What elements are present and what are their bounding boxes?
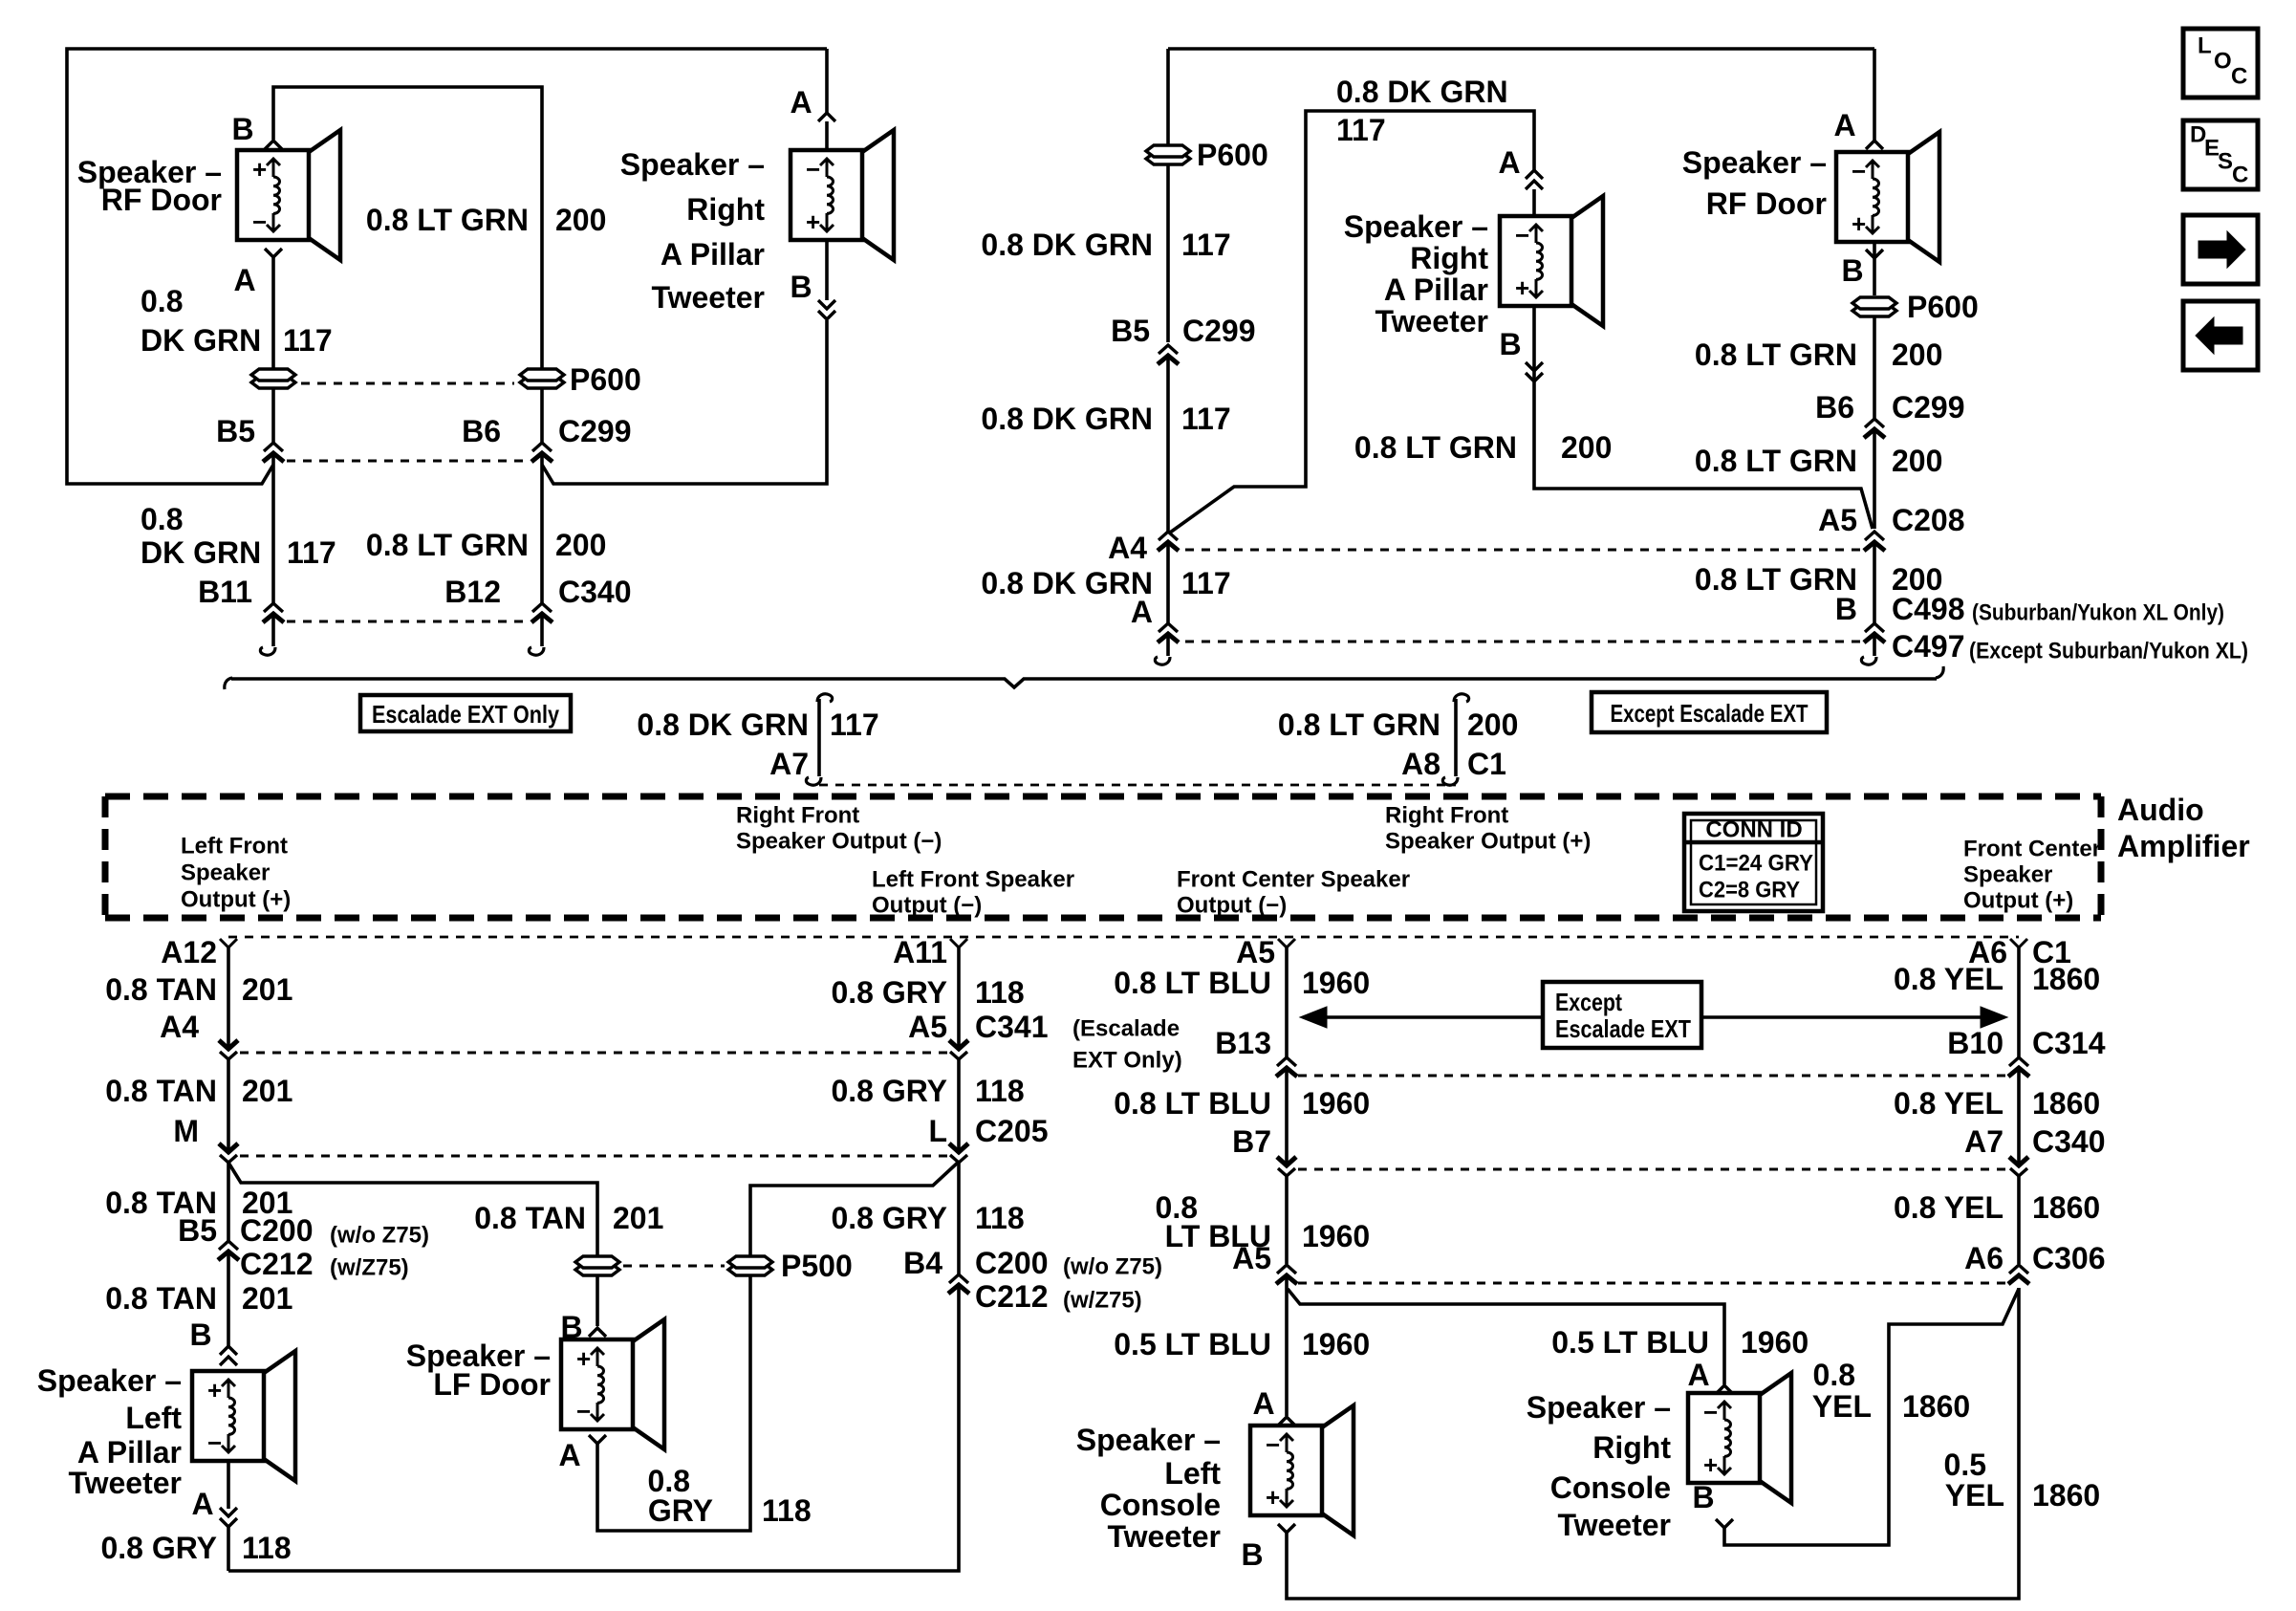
label 0.8 TAN 201 (row 3): [105, 1186, 292, 1220]
svg-text:B12: B12: [444, 575, 501, 609]
svg-text:B: B: [189, 1317, 211, 1352]
svg-text:−: −: [1266, 1430, 1280, 1459]
wire: B5 to A4 (top-right): [1166, 356, 1170, 532]
svg-text:B: B: [1841, 253, 1863, 288]
svg-text:A: A: [233, 263, 255, 297]
svg-text:Speaker Output (+): Speaker Output (+): [1385, 829, 1591, 855]
connector C314 pin B13: [1215, 1026, 1297, 1077]
label 0.8 GRY 118 (B4 row): [831, 1201, 1024, 1235]
box Except Escalade EXT (middle): [1543, 982, 1701, 1048]
svg-text:0.8 LT GRN: 0.8 LT GRN: [1278, 708, 1440, 742]
wire stub below B with hook (top-right right wire): [1861, 634, 1876, 664]
svg-text:Speaker –: Speaker –: [1682, 145, 1827, 180]
svg-text:0.8 GRY: 0.8 GRY: [100, 1531, 217, 1565]
svg-text:B: B: [1835, 592, 1857, 626]
svg-text:Output (+): Output (+): [1963, 888, 2073, 914]
speaker Speaker - LF Door: [561, 1319, 664, 1449]
connector C497 label: [1892, 629, 1965, 664]
svg-text:P600: P600: [570, 362, 641, 397]
svg-text:0.8 LT GRN: 0.8 LT GRN: [366, 528, 529, 562]
label Front Center Speaker Output (+): [1963, 837, 2101, 914]
label 0.8 TAN 201 (row 1): [105, 972, 292, 1007]
wire: amplifier lead A7 (0.8 DK GRN 117): [806, 694, 832, 785]
wire: A4 down to connector A (DK GRN 117): [1166, 542, 1170, 623]
svg-text:A Pillar: A Pillar: [77, 1435, 182, 1469]
svg-text:Escalade EXT Only: Escalade EXT Only: [372, 700, 559, 729]
svg-text:C: C: [2232, 163, 2248, 188]
connector P500 left half: [575, 1256, 619, 1275]
svg-text:B7: B7: [1232, 1124, 1271, 1159]
svg-text:117: 117: [1336, 113, 1386, 147]
svg-text:0.8 LT GRN: 0.8 LT GRN: [1695, 337, 1857, 372]
label Right Front Speaker Output (-): [736, 803, 942, 855]
connector P600 (top-right right wire): [1852, 290, 1979, 324]
svg-text:117: 117: [830, 708, 879, 742]
connector C299 pin B6 (top-right): [1815, 390, 1964, 438]
svg-text:117: 117: [283, 323, 333, 358]
connector C497 pin A: [1131, 595, 1179, 642]
svg-text:200: 200: [1892, 444, 1942, 478]
wire: chevrons to tweeter box (top-right): [1532, 189, 1536, 216]
svg-text:Console: Console: [1550, 1470, 1671, 1505]
svg-text:B5: B5: [1111, 314, 1150, 348]
svg-text:YEL: YEL: [1812, 1389, 1872, 1424]
svg-text:A: A: [1833, 108, 1855, 142]
label 0.8 LT BLU 1960 (row 2): [1114, 1086, 1370, 1121]
label (Except Suburban/Yukon XL): [1969, 639, 2248, 664]
svg-text:L: L: [928, 1114, 947, 1148]
svg-text:Right Front: Right Front: [736, 803, 859, 829]
svg-text:−: −: [252, 207, 267, 236]
label Speaker - RF Door (top-right): [1682, 145, 1827, 221]
svg-text:C1=24 GRY: C1=24 GRY: [1699, 851, 1813, 877]
svg-text:A4: A4: [1108, 531, 1147, 565]
connector C340 pin B11: [198, 575, 284, 622]
label Speaker - Right A Pillar Tweeter (top-left section): [620, 147, 766, 315]
label Speaker - RF Door (top-left): [77, 155, 222, 217]
svg-text:+: +: [1515, 273, 1529, 302]
label 0.8 DK GRN 117 (top-left upper): [141, 284, 333, 358]
svg-text:(Suburban/Yukon XL Only): (Suburban/Yukon XL Only): [1972, 600, 2224, 626]
svg-text:+: +: [806, 207, 820, 236]
wire: tweeter B to chevrons (top-left): [825, 240, 829, 300]
svg-text:Speaker Output (−): Speaker Output (−): [736, 829, 942, 855]
wire stub below B12 with hook: [529, 614, 544, 655]
pin B RF Door (top-right): [1841, 250, 1883, 288]
svg-text:118: 118: [975, 1201, 1025, 1235]
speaker Speaker - RF Door (top-left): [237, 130, 340, 260]
svg-text:Except: Except: [1555, 988, 1622, 1016]
wire: dashed connector row between A7 and A8: [819, 784, 1456, 787]
svg-text:201: 201: [242, 1074, 292, 1108]
connector C208 pin A4: [1108, 531, 1179, 565]
svg-text:C200: C200: [975, 1246, 1049, 1280]
svg-text:117: 117: [1181, 228, 1231, 262]
wire: left wire down to P600 (top-right): [1166, 49, 1170, 144]
connector C205 pin L: [928, 1114, 1048, 1163]
wire: B6 to B12 (LT GRN 200): [540, 453, 544, 604]
label 0.8 LT GRN 200 (tweeter B run, top-right): [1354, 430, 1612, 465]
wire: inner horizontal 0.8 LT GRN 200 top run: [273, 87, 542, 368]
wire: top edge down to tweeter A (top-left): [825, 49, 829, 113]
svg-text:0.8 LT GRN: 0.8 LT GRN: [1695, 444, 1857, 478]
svg-text:(Except Suburban/Yukon XL): (Except Suburban/Yukon XL): [1969, 639, 2248, 664]
connector C341 pin A4 (bottom-left): [160, 1010, 238, 1059]
svg-text:0.8 TAN: 0.8 TAN: [105, 1074, 217, 1108]
svg-text:0.8 YEL: 0.8 YEL: [1894, 962, 2004, 996]
wire: dashed pairing line C299 (top-left): [287, 460, 529, 463]
connector P600 (top-right left wire): [1146, 138, 1268, 172]
svg-text:117: 117: [287, 535, 336, 570]
marker double arrow Except Escalade EXT: [1300, 1007, 2007, 1028]
svg-text:0.8 DK GRN: 0.8 DK GRN: [1336, 75, 1508, 109]
svg-text:Front Center: Front Center: [1963, 837, 2101, 862]
label 0.8 LT GRN 200 (top-left): [366, 203, 606, 237]
box Escalade EXT Only: [360, 695, 571, 731]
speaker Speaker - Right A Pillar Tweeter (top-right section): [1500, 196, 1603, 326]
svg-text:C299: C299: [558, 414, 632, 448]
wire: RF Door B to P600 (top-right): [1873, 242, 1876, 295]
svg-text:0.8 LT GRN: 0.8 LT GRN: [1695, 562, 1857, 597]
svg-text:C: C: [2231, 64, 2247, 90]
pin A Speaker LF Door: [558, 1435, 606, 1472]
svg-text:Speaker: Speaker: [181, 860, 270, 886]
speaker Speaker - Right Console Tweeter: [1688, 1373, 1791, 1503]
svg-text:118: 118: [975, 975, 1025, 1010]
pin A RF Door (top-right): [1833, 108, 1883, 149]
wire: bottom run from tweeter A to A11 chain: [228, 1285, 959, 1571]
svg-text:Output (−): Output (−): [1177, 893, 1287, 919]
label 0.8 DK GRN 117 (top-left lower): [141, 502, 336, 570]
svg-text:A Pillar: A Pillar: [661, 237, 765, 272]
svg-text:Left: Left: [125, 1401, 182, 1435]
pin A RF Door (top-left): [233, 249, 282, 297]
svg-text:117: 117: [1181, 402, 1231, 436]
component Audio Amplifier (bold dashed box): [105, 796, 2101, 918]
wire: dashed pairing line C314: [1298, 1075, 2005, 1078]
pin B tweeter (top-right): [1499, 327, 1543, 381]
label 0.5 LT BLU 1960 (branch): [1551, 1325, 1809, 1360]
connector C299 pin B6 (top-left): [462, 414, 631, 462]
svg-text:0.8 DK GRN: 0.8 DK GRN: [637, 708, 809, 742]
wire: dashed pairing line C340 (bottom): [1298, 1168, 2005, 1171]
pin B Right A Pillar Tweeter (top-left): [790, 270, 835, 319]
wire: amplifier bottom pin dashed row: [228, 936, 2019, 939]
svg-text:118: 118: [762, 1493, 812, 1528]
svg-text:Tweeter: Tweeter: [1107, 1519, 1221, 1554]
svg-text:Speaker: Speaker: [1963, 862, 2052, 888]
wire: P500 down to LF Door B: [596, 1276, 599, 1326]
svg-text:P600: P600: [1197, 138, 1268, 172]
label 0.8 LT BLU 1960 (row 1): [1114, 966, 1370, 1000]
label 0.8 LT GRN 200 (top-left lower): [366, 528, 606, 562]
speaker Speaker - Left Console Tweeter: [1250, 1405, 1354, 1535]
svg-text:P600: P600: [1907, 290, 1979, 324]
wire: dashed pairing line C306: [1298, 1282, 2005, 1285]
svg-text:−: −: [576, 1397, 591, 1426]
svg-text:200: 200: [1561, 430, 1612, 465]
svg-text:O: O: [2214, 49, 2232, 75]
label 0.8 YEL 1860 (row 2): [1894, 1086, 2100, 1121]
svg-text:EXT Only): EXT Only): [1072, 1048, 1182, 1074]
wire: dashed pairing line P600 (top-left): [301, 382, 514, 385]
box Except Escalade EXT (top): [1592, 692, 1827, 732]
icon LOC box: [2183, 29, 2258, 98]
wire: Right Console Tweeter B loop to A6 junction (0.8 YEL 1860): [1724, 1289, 2019, 1545]
svg-text:+: +: [576, 1344, 591, 1373]
wire: B10 down to A7 C340 (0.8 YEL 1860): [2017, 1068, 2021, 1165]
svg-text:Right: Right: [1592, 1430, 1671, 1465]
icon back arrow box: [2183, 301, 2258, 370]
label P600 (top-left): [570, 362, 641, 397]
svg-text:Speaker –: Speaker –: [1076, 1423, 1221, 1457]
pin B Speaker LF Door: [560, 1310, 606, 1344]
wire stub below A with hook (top-right left wire): [1155, 634, 1170, 664]
svg-text:(w/o Z75): (w/o Z75): [1063, 1254, 1162, 1280]
svg-text:Right: Right: [686, 192, 765, 227]
svg-text:Except Escalade EXT: Except Escalade EXT: [1611, 699, 1809, 728]
svg-text:+: +: [1266, 1483, 1280, 1512]
label 0.8 GRY 118 (A11 row 1): [831, 975, 1024, 1010]
svg-text:C314: C314: [2032, 1026, 2106, 1060]
wire: top-right section top edge: [1168, 47, 1874, 51]
svg-text:A11: A11: [893, 935, 947, 969]
label 0.8 DK GRN 117 (top-right inner loop): [1336, 75, 1508, 147]
svg-text:B: B: [790, 270, 812, 304]
label 0.8 GRY 118 (A11 row 2): [831, 1074, 1024, 1108]
svg-text:RF Door: RF Door: [1706, 186, 1827, 221]
svg-text:1860: 1860: [2032, 962, 2100, 996]
wire: B5 to B11 (DK GRN 117): [271, 453, 275, 604]
connector C341 pin A5 (bottom): [908, 1010, 1048, 1059]
svg-text:A: A: [1687, 1358, 1709, 1392]
label Speaker - Left Console Tweeter: [1076, 1423, 1222, 1554]
wire: A11 down to A5 C341 (0.8 GRY 118): [957, 947, 961, 1048]
wire: M branch to LF Door B via P500 (0.8 TAN 201): [228, 1163, 597, 1255]
speaker Speaker - RF Door (top-right): [1836, 132, 1939, 262]
wire: P600 to B6 (top-left): [540, 389, 544, 443]
svg-text:LF Door: LF Door: [433, 1367, 551, 1402]
label 0.5 YEL 1860 (bottom right): [1944, 1448, 2101, 1513]
wire: L down to B4 chevrons: [957, 1163, 961, 1275]
svg-text:0.8 DK GRN: 0.8 DK GRN: [981, 402, 1153, 436]
connector C306 pin A5 (bottom): [1232, 1241, 1297, 1284]
wire: B7 down to A5 C306: [1285, 1176, 1289, 1264]
svg-text:Speaker –: Speaker –: [620, 147, 765, 182]
svg-text:0.8 LT BLU: 0.8 LT BLU: [1114, 1086, 1271, 1121]
svg-text:0.8 TAN: 0.8 TAN: [105, 1281, 217, 1316]
svg-text:Right Front: Right Front: [1385, 803, 1508, 829]
svg-text:A5: A5: [1236, 935, 1275, 969]
svg-text:L: L: [2198, 33, 2212, 59]
svg-text:Right: Right: [1410, 241, 1488, 275]
svg-text:0.5: 0.5: [1944, 1448, 1986, 1482]
svg-text:A: A: [790, 85, 812, 120]
svg-text:0.8 TAN: 0.8 TAN: [474, 1201, 586, 1235]
label Speaker - Right Console Tweeter: [1527, 1390, 1672, 1542]
pin A Left Console Tweeter: [1252, 1386, 1295, 1426]
svg-text:Tweeter: Tweeter: [68, 1466, 182, 1500]
wire: Left Console Tweeter B bottom run to A6 (0.5 YEL 1860): [1287, 1288, 2019, 1599]
svg-text:GRY: GRY: [648, 1493, 713, 1528]
wire: A6 pin down to B10 (0.8 YEL 1860): [2017, 947, 2021, 1057]
svg-text:−: −: [1852, 157, 1866, 185]
connector C340 pin B12: [444, 575, 631, 622]
svg-text:A5: A5: [1818, 503, 1857, 537]
label 0.8 YEL 1860 (row 1): [1894, 962, 2100, 996]
wire: tweeter B down and right to A5 (LT GRN 200): [1534, 306, 1873, 529]
label Speaker - Right A Pillar Tweeter (top-right section): [1344, 209, 1489, 338]
wire: A5 down to L: [957, 1059, 961, 1151]
connector C306 pin A6 (bottom): [1964, 1241, 2105, 1284]
label 0.8 LT GRN 200 (top-right, above B6): [1695, 337, 1942, 372]
svg-text:200: 200: [1892, 337, 1942, 372]
svg-text:S: S: [2218, 149, 2233, 175]
svg-text:(w/Z75): (w/Z75): [1063, 1288, 1142, 1314]
label 0.8 LT BLU 1960 (row 3): [1156, 1190, 1371, 1253]
connector C200/C212 pin B5 (bottom-left): [178, 1213, 429, 1281]
pin B RF Door (top-left): [231, 112, 282, 149]
label Speaker - LF Door: [406, 1339, 551, 1402]
svg-text:0.5 LT BLU: 0.5 LT BLU: [1551, 1325, 1709, 1360]
svg-text:Tweeter: Tweeter: [651, 280, 765, 315]
svg-text:−: −: [207, 1428, 222, 1457]
svg-text:C498: C498: [1892, 592, 1965, 626]
svg-text:Tweeter: Tweeter: [1557, 1508, 1671, 1542]
svg-text:0.8 DK GRN: 0.8 DK GRN: [981, 228, 1153, 262]
svg-text:−: −: [1703, 1398, 1718, 1426]
svg-text:200: 200: [555, 203, 606, 237]
svg-text:A: A: [558, 1438, 580, 1472]
label Right Front Speaker Output (+): [1385, 803, 1591, 855]
connector C205 pin M: [173, 1114, 238, 1163]
box CONN ID table: [1684, 814, 1823, 911]
label 0.8 LT GRN 200 (top-right row3): [1695, 562, 1942, 597]
svg-text:B5: B5: [178, 1213, 217, 1248]
svg-text:201: 201: [242, 1281, 292, 1316]
svg-text:Left Front: Left Front: [181, 834, 288, 860]
svg-text:B11: B11: [198, 575, 252, 609]
label 0.8 DK GRN 117 (top-right row1): [981, 228, 1230, 262]
wire: B5 chevrons down to tweeter B: [227, 1252, 230, 1346]
svg-text:117: 117: [1181, 566, 1231, 600]
label 0.8 LT GRN 200 A8 C1: [1278, 708, 1518, 781]
svg-text:B6: B6: [462, 414, 501, 448]
svg-text:1960: 1960: [1302, 1219, 1370, 1253]
wire: top-left section outer loop (tweeter circuit, top and left edges): [67, 49, 827, 484]
svg-text:Amplifier: Amplifier: [2117, 829, 2250, 863]
label 0.8 YEL 1860 (row 3): [1894, 1190, 2100, 1225]
svg-text:B10: B10: [1947, 1026, 2004, 1060]
svg-text:A8: A8: [1401, 747, 1440, 781]
svg-text:Front Center Speaker: Front Center Speaker: [1177, 867, 1410, 893]
svg-text:A5: A5: [908, 1010, 947, 1044]
svg-text:Speaker –: Speaker –: [1344, 209, 1488, 244]
svg-text:0.8 TAN: 0.8 TAN: [105, 972, 217, 1007]
svg-text:−: −: [806, 155, 820, 184]
svg-text:B: B: [1692, 1480, 1714, 1514]
svg-text:1860: 1860: [2032, 1190, 2100, 1225]
svg-text:+: +: [252, 155, 267, 184]
label Speaker - Left A Pillar Tweeter: [37, 1363, 183, 1500]
pin A tweeter (top-right): [1498, 145, 1543, 189]
svg-text:C205: C205: [975, 1114, 1049, 1148]
svg-text:B: B: [1241, 1537, 1263, 1572]
label Front Center Speaker Output (-): [1177, 867, 1410, 919]
svg-text:1860: 1860: [2032, 1478, 2100, 1513]
label Left Front Speaker Output (-): [872, 867, 1074, 919]
speaker Speaker - Right A Pillar Tweeter (top-left section): [791, 130, 894, 260]
svg-text:1960: 1960: [1302, 1086, 1370, 1121]
svg-text:1960: 1960: [1741, 1325, 1809, 1360]
svg-text:118: 118: [242, 1531, 292, 1565]
wire: dashed pairing line P500: [623, 1265, 725, 1268]
svg-text:Left Front Speaker: Left Front Speaker: [872, 867, 1074, 893]
svg-text:0.8 LT GRN: 0.8 LT GRN: [366, 203, 529, 237]
icon DESC box: [2183, 120, 2258, 189]
svg-text:(w/o Z75): (w/o Z75): [330, 1223, 429, 1249]
label 0.8 DK GRN 117 A7: [637, 708, 878, 781]
svg-text:0.8 YEL: 0.8 YEL: [1894, 1086, 2004, 1121]
pin A Left A Pillar Tweeter: [191, 1487, 237, 1527]
svg-text:C340: C340: [2032, 1124, 2106, 1159]
svg-text:200: 200: [1467, 708, 1518, 742]
wire: B6 down to A5 (top-right): [1873, 429, 1876, 529]
svg-text:201: 201: [242, 972, 292, 1007]
pin A Right Console Tweeter: [1687, 1358, 1733, 1394]
wire: A5 pin down to B13 (0.8 LT BLU 1960): [1285, 947, 1289, 1057]
wire: P600 down to B5 (top-right): [1166, 165, 1170, 342]
pin B Left A Pillar Tweeter: [189, 1317, 237, 1365]
svg-text:+: +: [207, 1376, 222, 1404]
wire: merge bus line with center notch: [225, 666, 1943, 689]
wire: dashed pairing line C497: [1185, 641, 1862, 643]
svg-text:Left: Left: [1164, 1456, 1221, 1491]
wire: dashed pairing row A4-A5 C341: [240, 1052, 947, 1055]
wire: A5 down to connector B (LT GRN 200): [1873, 542, 1876, 623]
svg-text:Speaker –: Speaker –: [37, 1363, 182, 1398]
wire: RF Door A down to P600 (DK GRN 117): [271, 257, 275, 368]
connector C299 pin B5 (top-left): [216, 414, 284, 462]
connector C200/C212 pin B4: [903, 1246, 1162, 1314]
label 0.8 YEL 1860 (right console): [1812, 1358, 1970, 1424]
svg-text:0.8: 0.8: [141, 284, 183, 318]
wire: dashed pairing line C340 (top-left): [287, 620, 529, 623]
svg-text:B13: B13: [1215, 1026, 1271, 1060]
svg-text:A Pillar: A Pillar: [1384, 272, 1488, 307]
connector C208 pin A5: [1818, 503, 1964, 551]
svg-text:C212: C212: [240, 1247, 314, 1281]
svg-text:0.8 GRY: 0.8 GRY: [831, 975, 947, 1010]
label 0.8 TAN 201 (row 4): [105, 1281, 292, 1316]
label 0.5 LT BLU 1960 (left): [1114, 1327, 1370, 1361]
svg-text:Escalade EXT: Escalade EXT: [1555, 1014, 1691, 1043]
connector P600 left half (top-left): [251, 369, 295, 388]
wire: LF Door A loop to P500 right half (0.8 GRY 118): [597, 1276, 750, 1531]
svg-text:0.8: 0.8: [1813, 1358, 1855, 1392]
svg-text:C200: C200: [240, 1213, 314, 1248]
svg-text:B: B: [1499, 327, 1521, 361]
svg-text:DK GRN: DK GRN: [141, 535, 261, 570]
connector C340 pin A7 (bottom): [1964, 1124, 2105, 1176]
svg-text:A: A: [1252, 1386, 1274, 1421]
svg-text:A5: A5: [1232, 1241, 1271, 1275]
svg-text:C340: C340: [558, 575, 632, 609]
svg-text:(Escalade: (Escalade: [1072, 1016, 1180, 1042]
svg-text:B6: B6: [1815, 390, 1854, 425]
svg-text:0.8 LT GRN: 0.8 LT GRN: [1354, 430, 1517, 465]
label 0.8 DK GRN 117 (top-right row2): [981, 402, 1230, 436]
